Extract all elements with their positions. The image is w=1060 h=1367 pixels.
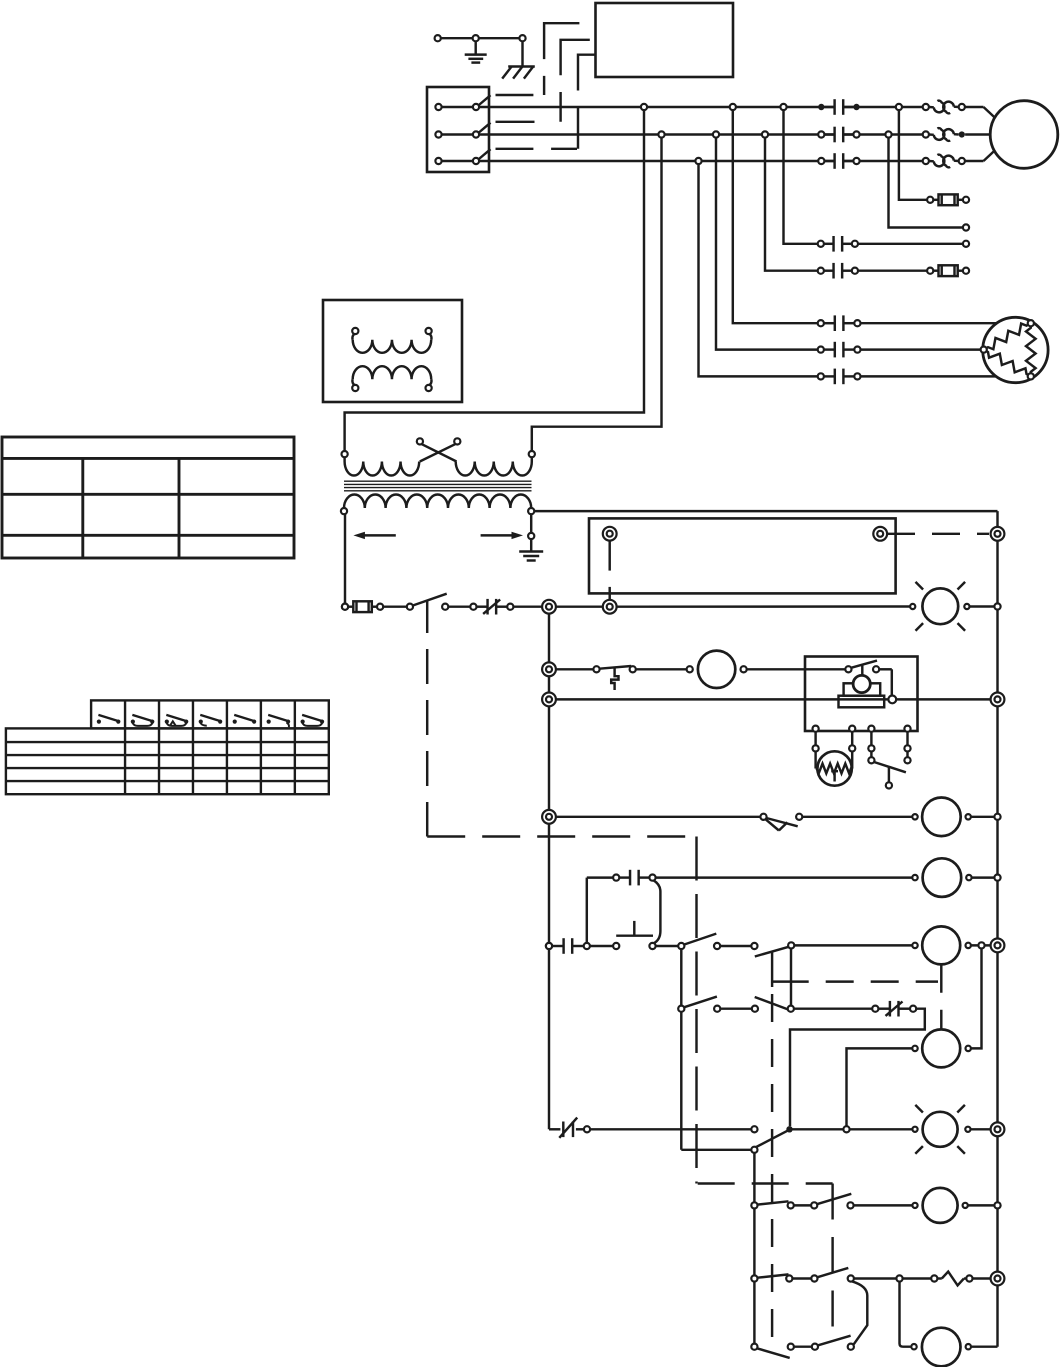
table wiring data	[2, 437, 294, 558]
wire feeder A3 to aux contact row1	[784, 110, 819, 244]
node phase A j1	[641, 104, 647, 110]
wire rung5 out	[656, 876, 913, 878]
node rung6 c2	[751, 943, 757, 949]
node TM1 pin1	[813, 726, 819, 732]
wire rung10 b	[972, 1277, 991, 1279]
wire feeder B2 to heater row2	[716, 138, 818, 350]
wire motor lead C	[965, 160, 984, 162]
node rung4 rail	[994, 814, 1000, 820]
wire rung11 pair	[788, 1344, 794, 1350]
node phase A j2	[730, 104, 736, 110]
node rung5 rail	[994, 875, 1000, 881]
wire rung3	[556, 698, 994, 700]
switch S1 control disconnect	[407, 604, 413, 610]
wire rung6 d	[794, 944, 912, 946]
wire feeder C1 to heater row3	[699, 164, 819, 376]
motor M3 defrost	[911, 1344, 916, 1349]
wire rung6b d	[794, 1007, 873, 1009]
contact NC rung8	[562, 1122, 564, 1138]
switch DS1 pole C	[435, 158, 441, 164]
node HTR left	[981, 347, 987, 353]
switch DT3 blade	[756, 1131, 787, 1147]
wire rung5 S-drop	[654, 880, 661, 943]
wire rung8 b	[790, 1128, 913, 1130]
wire TM1 bend	[879, 668, 892, 670]
wire rung6 e	[971, 944, 995, 946]
switch FS1 flow	[593, 666, 599, 672]
table switch icons	[97, 720, 101, 724]
wire motor lead A	[965, 106, 984, 108]
node rung9 pivot	[751, 1202, 757, 1208]
switch K2 blade a	[757, 1274, 788, 1277]
wire ground bus	[438, 37, 523, 39]
timer motor TM1	[853, 675, 870, 692]
node terminal T2	[963, 224, 969, 230]
wire rung6 a	[590, 945, 613, 947]
wire rung6b pair	[714, 1006, 720, 1012]
wire rung1 d	[556, 605, 604, 607]
wire sensor leads	[814, 751, 816, 768]
switch K3 blade open	[757, 1348, 790, 1358]
contact M-B main	[824, 133, 834, 135]
enclosure control panel box	[596, 3, 734, 77]
wire feeder A1 to transformer primary left	[345, 110, 644, 451]
switch K3 blade b	[818, 1336, 851, 1346]
node T2 secondary right	[426, 385, 432, 391]
link TM1 blade to motor	[861, 664, 863, 675]
coil DT1 defrost timer	[912, 943, 917, 948]
node T1 secondary left terminal	[341, 508, 347, 514]
node rung6 f	[978, 942, 984, 948]
fuse FU1 crankcase	[933, 199, 938, 201]
wire right rail	[996, 511, 998, 1347]
transformer T1 primary winding left	[343, 457, 345, 462]
terminal rung6 rail	[991, 939, 1005, 953]
wire rung7 feed	[847, 1048, 913, 1126]
overload heater OL-A	[934, 101, 945, 113]
node rung9 c	[847, 1202, 853, 1208]
wire dashed interlock link L1	[496, 23, 580, 95]
coil C2	[912, 1046, 917, 1051]
node HTR bottom	[1028, 373, 1034, 379]
terminal rung2 left rail	[542, 662, 556, 676]
node rung8 throw1	[751, 1126, 757, 1132]
wire rung4 c	[971, 816, 995, 818]
node rung8 j2	[843, 1126, 849, 1132]
contact TM1 timer switch	[845, 666, 851, 672]
wire rung5 branch up	[586, 878, 588, 943]
heater bank HTR delta	[983, 317, 1048, 382]
wire interlock plug stub	[608, 541, 610, 571]
wire rung1 f	[970, 605, 995, 607]
wire heater row1 out	[860, 322, 1027, 324]
wire rung11 motor feed	[910, 1345, 913, 1347]
transformer T2 secondary coil	[353, 366, 432, 379]
resistor HTR R2 upper leg	[987, 324, 1028, 350]
terminal rail TB1	[991, 527, 1005, 541]
wire motor lead B	[965, 133, 991, 135]
wire rung6 c	[720, 945, 751, 947]
node ground bus left	[435, 35, 441, 41]
node rung6 left rail	[546, 943, 552, 949]
node rung10 c	[848, 1275, 854, 1281]
wire phase A bus	[479, 106, 834, 108]
wire T1 secondary right to ground	[530, 514, 532, 533]
timer box TM1	[805, 657, 918, 732]
node T1 primary left terminal	[342, 451, 348, 457]
contact DT NC	[878, 1007, 890, 1009]
node TM1 pin3	[868, 726, 874, 732]
node HTR top	[1028, 320, 1034, 326]
node rung8 throw2	[751, 1147, 757, 1153]
wire rung6b wrap	[790, 1009, 925, 1126]
node TM1 pin2	[849, 726, 855, 732]
link DT1 rod	[771, 951, 773, 987]
switch TM1 contact rung6	[678, 943, 684, 949]
terminal interlock left	[603, 527, 617, 541]
node phase B j3	[762, 131, 768, 137]
wire rung8 lower feed	[681, 1149, 751, 1151]
node T1 primary right terminal	[529, 451, 535, 457]
node phase B j4	[885, 131, 891, 137]
wire rung10 drop	[900, 1282, 912, 1347]
wire dashed interlock link L2	[496, 40, 590, 122]
node phase A j4	[896, 104, 902, 110]
switch K2 blade b	[817, 1268, 848, 1277]
terminal interlock right	[873, 527, 887, 541]
fuse FU2	[933, 269, 938, 271]
wire rung6 b	[656, 945, 679, 947]
contact aux row1	[824, 243, 834, 245]
switch DT2 transfer b	[755, 997, 789, 1010]
link dashed S1 rod	[426, 601, 428, 633]
contact PB seal path	[552, 945, 564, 947]
wire heater row2 out	[860, 348, 980, 350]
wire rung1 c	[513, 605, 542, 607]
link dashed DT1 rod lower	[771, 994, 773, 1351]
switch DS1 pole A	[435, 104, 441, 110]
wire rung11 rail	[971, 1345, 998, 1347]
node T2 secondary left	[352, 385, 358, 391]
node rung1 corner	[342, 604, 348, 610]
lamp PL1 power on	[922, 588, 958, 624]
terminal rung1 interlock	[603, 600, 617, 614]
node rung11 pivot	[751, 1344, 757, 1350]
table switch schedule	[91, 700, 329, 728]
wire rung8 a	[590, 1128, 751, 1130]
contact M-A main	[824, 106, 834, 108]
wire rung6 pivot drop	[680, 949, 682, 1150]
auxiliary transformer box	[323, 300, 462, 402]
resistor HTR R1 right leg	[1026, 326, 1036, 373]
link dashed DT1 coil to C2	[940, 965, 942, 1029]
wire rung4 a	[556, 816, 761, 818]
wire rung10 pair	[786, 1275, 792, 1281]
contact OL NC rung1	[476, 605, 487, 607]
ground earth GND1	[474, 41, 476, 54]
wire rung1 e	[616, 605, 910, 608]
terminal rung3 rail	[991, 693, 1005, 707]
node T1 tap left	[417, 438, 423, 444]
terminal rung1 left rail	[542, 600, 556, 614]
node rung6 b1	[613, 943, 619, 949]
ground earth GND3	[519, 550, 543, 552]
wire T1 cross link 1	[422, 444, 457, 461]
fuse FU3 control	[348, 605, 353, 607]
wire rung4 b	[802, 816, 912, 818]
contact M1 aux seal	[619, 876, 630, 878]
wire bus lower	[753, 1153, 755, 1344]
terminal rung3 left rail	[542, 693, 556, 707]
switch DS1 pole B	[435, 131, 441, 137]
node T2 primary right	[426, 328, 432, 334]
wire heater row3 out	[860, 375, 1027, 377]
wire phase B bus	[479, 133, 834, 135]
contact heater row3	[824, 375, 835, 377]
wire feeder A4 to fuse row	[899, 110, 927, 200]
switch DT2 transfer a	[678, 1006, 684, 1012]
node TM1 pin4	[904, 726, 910, 732]
lamp PL2 defrost	[923, 1112, 958, 1147]
wire aux row2 out	[858, 269, 927, 271]
contact M-C main	[824, 160, 834, 162]
motor M compressor	[990, 101, 1058, 169]
pushbutton PB1 start	[616, 934, 653, 936]
contact aux row2	[824, 269, 834, 271]
wire rung8 corner	[549, 1128, 560, 1130]
contact heater row1	[824, 322, 835, 324]
node T1 secondary right terminal	[528, 508, 534, 514]
wire rung2 b	[636, 668, 687, 670]
wire rung9 b	[968, 1204, 995, 1206]
wire rung9 pair	[788, 1202, 794, 1208]
wire rung7 up	[971, 949, 982, 1049]
resistor HTR R3 lower leg	[987, 351, 1028, 374]
link DT1 rod horizontal	[771, 980, 809, 982]
node phase B j1	[658, 131, 664, 137]
coil C3	[912, 1203, 917, 1208]
node rung10 j	[896, 1275, 902, 1281]
wire dashed interlock to rail	[887, 533, 989, 535]
coil C1	[912, 875, 917, 880]
node phase B j2	[713, 131, 719, 137]
node rung11 c	[848, 1344, 854, 1350]
node terminal T3	[963, 241, 969, 247]
node rung10 pivot	[751, 1275, 757, 1281]
wire rung10 a	[854, 1277, 932, 1279]
wire feeder A2 to heater row1	[733, 110, 819, 323]
timer pedestal	[844, 683, 881, 695]
arrow T1 voltage low	[360, 534, 396, 536]
switch DT1 defrost contact	[755, 947, 789, 957]
wire left rail	[548, 613, 550, 1129]
node T1 tap right	[454, 438, 460, 444]
wire feeder B3 to aux contact row2	[765, 138, 818, 271]
node ground bus right	[519, 35, 525, 41]
wire T1 secondary right feed	[534, 510, 997, 512]
wire rung2 c	[747, 668, 846, 670]
node TM1 output	[888, 696, 896, 704]
door interlock box	[589, 518, 896, 593]
wire feeder B1 to transformer primary right	[532, 138, 662, 452]
transformer T2 primary coil	[353, 340, 432, 353]
transformer T1 primary winding right	[531, 457, 533, 462]
overload heater OL-B	[934, 128, 945, 140]
wire rung5 rail	[972, 876, 995, 878]
switch K1 blade b	[817, 1194, 851, 1204]
sensor TH1 thermistor	[817, 751, 851, 785]
wire rung9 a	[854, 1204, 913, 1206]
disconnect switch box DS1	[427, 87, 489, 172]
coil M2 fan	[912, 814, 917, 819]
wire rung1 a	[383, 605, 407, 607]
terminal rung8 rail	[991, 1122, 1005, 1136]
wire aux row1 out	[858, 243, 963, 245]
node rung6 b2	[649, 943, 655, 949]
wire rung6b right drop	[790, 949, 792, 1006]
wire rung2 a	[556, 668, 594, 670]
wire rung1 b	[448, 605, 470, 607]
core T1 laminations	[344, 480, 532, 482]
node TM1 pin4 stub	[906, 751, 908, 757]
wire T1 cross link 2	[420, 444, 455, 461]
resistor R heat	[931, 1275, 937, 1281]
node rung8 common	[786, 1126, 792, 1132]
switch K1 blade a	[757, 1201, 788, 1204]
contact heater row2	[824, 348, 835, 350]
overload heater OL-C	[934, 155, 945, 167]
node phase C j1	[695, 158, 701, 164]
wire T1 secondary left drop	[344, 514, 346, 603]
wire rung10 S-drop	[852, 1281, 868, 1344]
switch TM1 selector	[870, 751, 872, 757]
switch TS1 thermal	[760, 814, 766, 820]
transformer T1 secondary winding	[344, 494, 531, 508]
terminal rung10 rail	[991, 1272, 1005, 1286]
wire dashed interlock link L3	[496, 55, 596, 149]
wire phase C bus	[479, 160, 834, 162]
node T2 primary left	[352, 328, 358, 334]
coil M1 contactor	[687, 666, 693, 672]
node secondary ground junction	[528, 533, 534, 539]
wire feeder B4 to terminal	[889, 138, 963, 228]
node phase A j3	[780, 104, 786, 110]
node rung9 rail	[994, 1202, 1000, 1208]
wire rung8 c	[971, 1128, 991, 1130]
terminal rung4 left rail	[542, 810, 556, 824]
node rung1 rail	[994, 603, 1000, 609]
arrow T1 voltage high	[481, 534, 517, 536]
node ground bus mid	[473, 35, 479, 41]
ground chassis GND2	[521, 41, 523, 67]
